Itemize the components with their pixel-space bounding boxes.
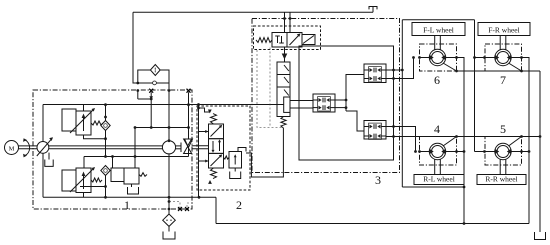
wire: pilot valve feed left — [284, 12, 286, 32]
filter bypass line — [138, 82, 169, 84]
wire: left bus vertical — [198, 105, 200, 198]
stack valve section line 1 — [277, 74, 290, 76]
wire: motor6 right port to return riser — [457, 58, 465, 224]
relief valve RV1 internal arrow — [83, 116, 85, 131]
junction motor4 ports — [414, 150, 417, 153]
svg-text:R-L wheel: R-L wheel — [423, 174, 455, 183]
block 1 inner circuit frame top wire (feeds through block 2 into block 3) — [43, 104, 284, 106]
junction drain collector — [539, 135, 542, 138]
solenoid pilot valve sub-enclosure (dashed) — [254, 26, 321, 50]
relief valve RV1 main box — [76, 111, 91, 135]
junction drain m7 — [520, 70, 523, 73]
wire: riser to FD-bot — [346, 111, 364, 131]
svg-text:F-L wheel: F-L wheel — [423, 25, 454, 34]
shut-off valve lower triangle — [184, 147, 192, 154]
wire: filter to tank — [168, 226, 170, 231]
block 3 enclosure (dash-dot box, divider unit) — [252, 19, 400, 173]
junction motor6 ports — [412, 56, 415, 59]
wire: charge manifold line — [135, 127, 189, 129]
junction drain m5 — [520, 135, 523, 138]
svg-text:F-R wheel: F-R wheel — [488, 25, 519, 34]
pilot line down with arrow — [284, 47, 286, 62]
relief valve RV2 main box — [76, 168, 91, 193]
pump P2 outlet stub — [168, 128, 170, 141]
check valve CV3 upper line with junction — [188, 105, 190, 139]
bypass check ball — [153, 81, 157, 85]
pilot valve solenoid box — [302, 35, 315, 45]
relief valve RV3 pilot stub — [112, 157, 114, 169]
flow divider FD-mid — [313, 94, 335, 112]
junction at box edge — [136, 89, 139, 92]
relief valve RV1 spring — [91, 121, 103, 125]
junction — [150, 126, 153, 129]
junction — [104, 116, 107, 119]
check valve CV1 upper line — [105, 105, 107, 121]
junction drain m6 — [455, 70, 458, 73]
block 1 frame left wire lower — [42, 153, 44, 197]
junction — [134, 155, 137, 158]
stack valve nested spool box — [284, 97, 290, 112]
stack valve section arrows — [284, 65, 289, 71]
relief valve RV1 pilot arrow — [70, 109, 94, 133]
flow divider FD-top — [364, 64, 386, 83]
wire: stack to FD-mid lower — [290, 107, 313, 109]
relief valve RV3 main box — [124, 168, 139, 184]
F-L wheel label box — [412, 23, 465, 36]
shut-off valve top bar — [184, 138, 192, 140]
check valve CV3 triangle — [185, 139, 193, 148]
wire: valve port stub A — [199, 131, 209, 133]
wire: main vertical supply left — [401, 20, 403, 187]
wire: filter line — [168, 197, 170, 214]
junction — [187, 126, 190, 129]
check valve CV1 diamond — [101, 121, 110, 131]
svg-text:3: 3 — [375, 173, 381, 187]
pilot valve solenoid slash — [303, 36, 314, 44]
wire: bowtie to valve 2 lower — [192, 148, 209, 150]
charge filter diamond — [150, 65, 160, 76]
drive shaft upper line — [19, 145, 38, 147]
pilot dashed path from valve V2 to stack valve — [257, 50, 283, 128]
junction — [463, 222, 466, 225]
valve V2 top spring — [211, 114, 217, 124]
junction — [528, 150, 531, 153]
junction — [289, 17, 292, 20]
electric motor M1 — [5, 141, 19, 155]
valve V2 body section 2 — [209, 139, 224, 154]
tank under RV3 — [128, 187, 139, 194]
junction — [473, 56, 476, 59]
junction — [168, 126, 171, 129]
valve V2 section3 arrow — [211, 156, 222, 167]
pilot valve blocked ports in left square — [277, 36, 279, 43]
junction motor5 ports — [483, 150, 486, 153]
pump P2 suction line — [168, 154, 170, 197]
check valve CV2 lower line — [105, 176, 107, 198]
wire: FD-mid outputs to riser — [335, 99, 346, 101]
wire: supply tap junction — [197, 103, 200, 106]
check valve CV2 ball — [104, 169, 108, 173]
F-R wheel label box — [478, 23, 530, 36]
charge filter dots — [155, 68, 156, 69]
relief valve RV4 main box — [229, 152, 242, 169]
plug cross 2 — [185, 207, 189, 211]
wire: top pilot jog — [199, 108, 210, 112]
wire: valve port stub B — [199, 160, 209, 162]
stack valve spring bottom — [281, 117, 286, 129]
junction — [104, 155, 107, 158]
relief valve RV2 pilot box — [62, 170, 76, 191]
relief valve RV4 pilot tab — [238, 148, 246, 152]
junction drain m4 — [455, 135, 458, 138]
relief valve RV1 outlet wire — [84, 135, 106, 139]
wire: bottom link to return — [402, 186, 464, 188]
stack valve pilot dashes — [269, 48, 271, 128]
junction motor7 ports — [483, 56, 486, 59]
wire: stack valve tank line — [246, 128, 283, 177]
wire: FD-top out B — [386, 58, 414, 79]
tank at drain end — [535, 232, 546, 240]
shaft end bar — [180, 143, 182, 153]
svg-text:5: 5 — [500, 122, 506, 136]
relief valve RV1 inlet stub — [83, 105, 85, 111]
wire: motor5 right port link — [522, 151, 530, 153]
wire: motor7 right port to return riser — [522, 58, 530, 224]
wire: FD-top out A — [386, 69, 402, 71]
drain stub with plug 1 — [169, 202, 180, 210]
stack valve (compensator) body — [277, 62, 290, 117]
svg-text:M: M — [9, 145, 15, 152]
filter suction junctions — [168, 196, 171, 199]
relief RV4 drain stub — [234, 168, 236, 172]
pilot solenoid valve left square — [272, 33, 287, 48]
wire: right column drop — [474, 20, 476, 152]
valve V2 bottom pilot arrow — [208, 180, 212, 184]
check valve CV1 lower line — [105, 131, 107, 157]
block 1 bottom return wire — [43, 196, 216, 198]
wire: top supply line — [133, 11, 373, 13]
wire: motor4 right port link — [457, 151, 465, 153]
wire: inlet drop with flow arrow — [150, 92, 152, 127]
relief valve RV2 spring — [91, 178, 102, 182]
wire: stack to FD-mid upper — [290, 100, 313, 102]
wire: bowtie to valve 2 upper — [192, 145, 209, 147]
hydraulic motor 6 (F-L) — [420, 44, 457, 71]
charge pump P2 — [162, 141, 175, 154]
block 1 frame left wire upper — [42, 105, 44, 142]
tank under filter — [163, 232, 175, 240]
valve V2 body section 3 — [209, 153, 224, 168]
filter mesh dots — [166, 220, 167, 221]
junction — [463, 150, 466, 153]
wire: motor5 feed — [475, 151, 486, 153]
wire: motor7 feed — [475, 57, 486, 59]
relief valve RV2 inlet stub — [83, 157, 85, 169]
drive shaft lower line — [19, 148, 38, 150]
wire: FD-bot out C — [386, 127, 416, 152]
relief valve RV4 spring — [224, 156, 230, 159]
junction — [283, 17, 286, 20]
check valve CV2 diamond — [101, 166, 110, 176]
wire: drain down right — [539, 71, 541, 232]
tank under pump P1 — [45, 160, 53, 167]
pilot valve spring — [256, 38, 272, 43]
wire: riser to FD-top — [346, 75, 364, 112]
junction D edge — [392, 135, 395, 138]
junction at filter bypass left node — [136, 82, 139, 85]
flow divider FD-bot — [364, 121, 386, 140]
valve V2 bottom spring — [211, 168, 217, 179]
pilot solenoid valve right square — [287, 33, 302, 48]
svg-text:7: 7 — [500, 73, 506, 87]
hydraulic motor 4 (R-L) — [420, 137, 457, 166]
valve V2 section2 arrows — [212, 141, 214, 151]
filter riser left — [138, 70, 151, 83]
relief valve RV2 internal arrow — [83, 174, 85, 189]
check valve CV3 lower line — [188, 148, 190, 157]
svg-text:R-R wheel: R-R wheel — [485, 174, 517, 183]
wire: return jog to main return line — [215, 197, 217, 223]
variable pump P1 — [37, 142, 49, 154]
junction — [104, 196, 107, 199]
wire: charge line down to manifold — [168, 83, 170, 141]
R-R wheel label box — [477, 175, 526, 185]
svg-text:4: 4 — [434, 122, 440, 136]
junction A main — [401, 69, 404, 72]
boundary cross mark at inlet — [149, 89, 153, 93]
check valve CV1 ball — [104, 124, 108, 128]
valve V2 body section 1 — [209, 124, 224, 139]
junction — [134, 126, 137, 129]
junction on return wire — [198, 196, 201, 199]
relief valve RV1 pilot box — [62, 109, 76, 131]
drain stub with plug 2 — [187, 203, 193, 209]
relief valve RV2 pilot arrow — [70, 168, 94, 192]
wire: front drain collector — [457, 70, 541, 72]
junction at pump P2 top — [168, 139, 171, 142]
junction — [111, 155, 114, 158]
junction — [104, 137, 107, 140]
R-L wheel label box — [414, 175, 464, 185]
block 2 enclosure (dashed box, valve unit) — [197, 106, 250, 190]
hydraulic motor 7 (F-R) — [485, 44, 522, 71]
relief valve RV3 inlet stub — [134, 128, 136, 169]
relief valve RV2 drain wire — [80, 186, 106, 188]
wire: filter leg link — [137, 91, 139, 100]
wire: pilot valve feed right — [289, 12, 291, 32]
wire: second circuit pressure line — [84, 156, 189, 158]
inner manifold box of block 3 — [299, 46, 394, 160]
junction — [104, 185, 107, 188]
junction — [463, 186, 466, 189]
wire: supply riser right column — [402, 19, 474, 21]
junction C edge — [392, 125, 395, 128]
relief valve RV4 internal arrow — [234, 156, 236, 165]
valve V2 section1 arrow — [211, 126, 222, 137]
pilot valve arrow in right square — [290, 35, 300, 46]
stack valve section line 2 — [277, 86, 290, 88]
junction — [104, 103, 107, 106]
plug cross 1 — [178, 207, 182, 211]
block 1 enclosure (dash-dot box, pump unit) — [33, 90, 192, 209]
valve V2 top pilot arrow — [208, 110, 212, 114]
wire: long bottom return line — [216, 223, 529, 225]
tank under RV4 — [230, 172, 241, 179]
shut-off valve bottom bar — [184, 153, 192, 155]
wire: FD-bot out D (tank/drain collector) — [386, 136, 540, 138]
shut-off valve (bowtie) upper triangle — [184, 139, 192, 146]
junction B edge — [392, 77, 395, 80]
vent/plug symbol at top — [372, 7, 374, 13]
svg-text:2: 2 — [236, 198, 242, 212]
filter outlet wire right — [160, 70, 169, 83]
relief valve RV3 pilot box — [111, 168, 124, 182]
wire: top line drop at left — [133, 12, 138, 83]
svg-text:1: 1 — [124, 198, 130, 212]
boundary cross mark at CV3 line — [187, 89, 191, 93]
relief valve RV3 outlet stub — [131, 184, 133, 187]
relief valve RV3 spring — [139, 173, 147, 177]
pump P1 suction stub — [48, 153, 50, 160]
junction A edge — [392, 69, 395, 72]
relief valve RV2 outlet stub — [83, 193, 85, 198]
wire: CV3 stub above wire — [188, 92, 190, 104]
hydraulic motor 5 (R-R) — [485, 137, 522, 166]
rotation arc at shaft — [25, 140, 30, 157]
pump P1 variable arrow — [37, 138, 52, 156]
svg-text:6: 6 — [434, 73, 440, 87]
filter diamond — [163, 214, 176, 226]
